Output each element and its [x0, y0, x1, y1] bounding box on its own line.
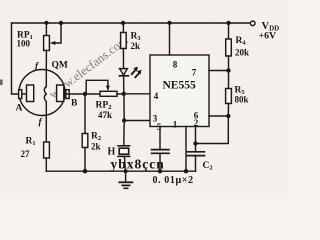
wire pin3 [124, 120, 150, 122]
node R4-R5-pin7 [226, 68, 230, 72]
LED D light arrow 2 [135, 73, 139, 77]
svg-text:B: B [71, 99, 78, 109]
wire crystal to rail [124, 156, 125, 171]
wire R4 top [228, 23, 230, 39]
svg-text:NE555: NE555 [163, 80, 196, 92]
capacitor C1 bottom plate [152, 152, 169, 154]
wire R5 bottom [227, 104, 229, 117]
wire rail to RP1 [45, 23, 47, 36]
node R5-pin6 [226, 114, 230, 118]
svg-text:QM: QM [52, 61, 68, 71]
node rail-RP1-wiper [59, 21, 63, 25]
svg-text:100: 100 [17, 39, 31, 49]
crystal H top plate [118, 145, 130, 147]
svg-text:1: 1 [173, 120, 178, 130]
potentiometer RP1 wiper [54, 23, 61, 43]
wire QM to R1 [45, 116, 47, 142]
capacitor C1 top plate [152, 149, 169, 151]
scan smudge left edge [0, 80, 3, 86]
node rail-pin1 [184, 169, 188, 173]
wire R3 to LED [122, 49, 124, 69]
svg-text:5: 5 [157, 122, 162, 132]
wire pin2 down [195, 127, 197, 144]
wire pin5 to C1 [159, 127, 161, 150]
potentiometer RP2 wiper [86, 80, 108, 92]
wire B to RP2 [64, 93, 100, 95]
node pin2-C2 [193, 141, 197, 145]
node rail-R4 [226, 21, 230, 25]
transducer QM circle [19, 70, 65, 116]
node rail-ground [124, 169, 128, 173]
LED D cathode bar [119, 75, 128, 77]
transducer QM left plate [27, 85, 34, 102]
svg-text:27: 27 [21, 149, 31, 159]
wire LED to node4 [123, 76, 125, 94]
transducer QM diaphragm [44, 70, 46, 116]
wire top rail VDD [12, 22, 251, 24]
wire node B down to R2 [84, 94, 86, 134]
svg-text:ybx8çcn: ybx8çcn [111, 156, 165, 171]
node rail-R3 [121, 21, 125, 25]
LED D triangle [120, 69, 128, 75]
wire pin2 node to C2 [195, 144, 197, 152]
wire pin6 to R5 [209, 115, 228, 117]
svg-text:+6V: +6V [259, 31, 277, 42]
node rail-R2 [83, 169, 87, 173]
capacitor C2 bottom plate [188, 155, 205, 157]
wire C2 to rail [195, 156, 197, 172]
svg-text:2k: 2k [131, 41, 141, 51]
watermark elecfans [46, 33, 131, 102]
node B-R2-RP2 [83, 92, 87, 96]
wire RP1 to QM [45, 51, 47, 71]
wire left frame to A [12, 23, 19, 94]
node rail-C1 [158, 169, 162, 173]
resistor R5 body [226, 89, 232, 104]
wire pin8 to rail [169, 23, 171, 55]
wire RP2 to node4 [117, 93, 124, 95]
wire pin6 node to pin2 node [196, 116, 229, 144]
wire C1 to rail [159, 153, 161, 171]
op-amp U1 NE555 box [150, 55, 209, 127]
svg-text:2: 2 [194, 118, 199, 128]
wire node4 to node3 [123, 94, 125, 121]
wire rail to R3 [122, 23, 124, 33]
svg-text:8: 8 [173, 60, 178, 70]
wire pin4 [124, 93, 150, 95]
wire bottom rail [46, 170, 195, 172]
wire R1 to ground rail [45, 158, 47, 171]
crystal H bottom plate [118, 155, 130, 157]
wire R4 bottom [228, 56, 230, 71]
wire pin1 to rail [185, 127, 187, 172]
svg-text:47k: 47k [98, 110, 112, 120]
resistor R3 body [121, 33, 127, 49]
node rail-RP1 [44, 21, 48, 25]
svg-text:80k: 80k [235, 95, 249, 105]
wire R2 to rail [84, 148, 86, 172]
transducer QM right bar [66, 90, 69, 99]
svg-text:A: A [16, 104, 23, 114]
node rail-pin8 [167, 21, 171, 25]
svg-text:2k: 2k [91, 142, 101, 152]
svg-text:4: 4 [154, 91, 159, 101]
LED D light arrow 1 [132, 70, 136, 74]
wire bar to plate A [22, 93, 27, 95]
node pin3 [122, 118, 126, 122]
transducer QM right plate [57, 85, 64, 102]
ground [125, 171, 127, 182]
resistor R1 body [44, 142, 50, 158]
svg-text:7: 7 [192, 68, 197, 78]
resistor R4 body [226, 39, 232, 56]
svg-text:0. 01μ×2: 0. 01μ×2 [153, 175, 194, 186]
wire pin7 to R4R5 [209, 70, 229, 72]
wire R5 top [228, 71, 230, 89]
capacitor C2 top plate [188, 151, 205, 153]
potentiometer RP1 body [44, 36, 50, 51]
terminal VDD [250, 21, 255, 26]
svg-text:20k: 20k [235, 48, 249, 58]
node RP2-pin4-LED [122, 92, 126, 96]
potentiometer RP2 body [100, 91, 117, 96]
transducer QM left bar [19, 90, 22, 99]
resistor R2 body [82, 134, 88, 148]
wire node3 to crystal H [123, 121, 125, 146]
crystal H body [119, 148, 129, 154]
